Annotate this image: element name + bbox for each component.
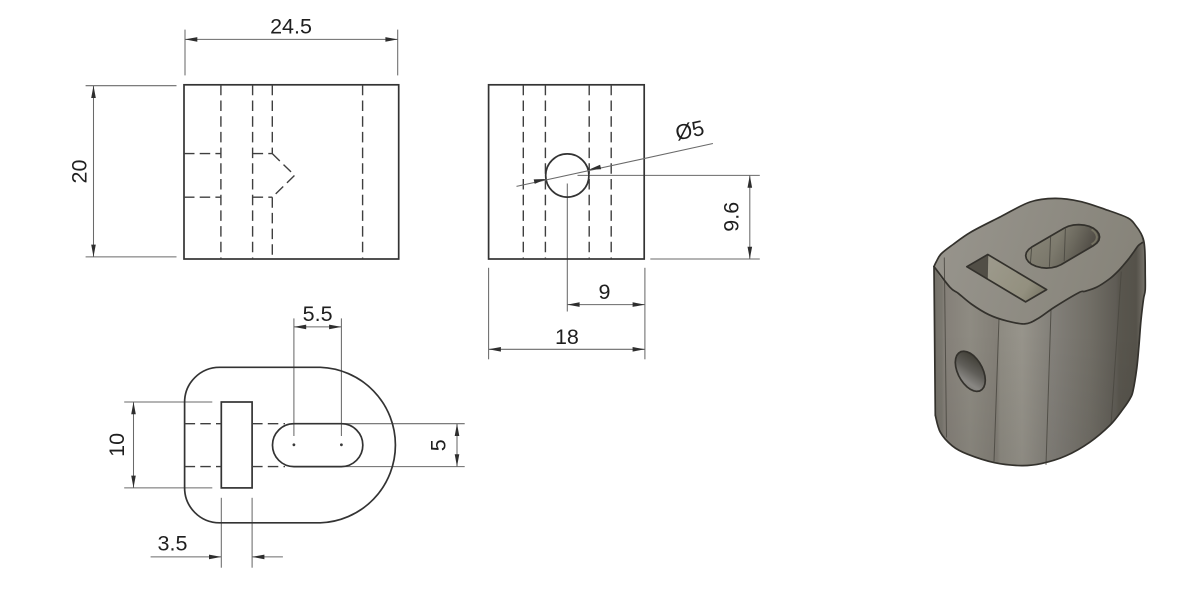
svg-text:5: 5 <box>426 439 450 451</box>
3d slot inner wall seam 3 <box>1064 229 1065 262</box>
top view dim 3.5 dimension line left tail <box>151 556 222 558</box>
side view dim 18 arrow left <box>489 347 501 352</box>
top view dim 3.5 extension line right <box>251 498 253 568</box>
top view hidden hole line top left <box>185 423 222 425</box>
side view hole leader arrow right <box>589 165 602 170</box>
svg-text:9: 9 <box>599 280 611 304</box>
top view dim 5 arrow bottom <box>455 454 460 466</box>
3d recess inner corner edge <box>986 256 989 279</box>
front view hidden hole silhouette top left <box>184 153 221 155</box>
top view dim 5.5 arrow left <box>294 325 306 330</box>
side view dim 18 extension line left <box>488 268 490 360</box>
3d left silhouette edge <box>934 267 935 416</box>
top view hidden hole line bottom mid <box>252 466 285 468</box>
top view recess rectangle 3.5x10 <box>221 402 252 488</box>
side view dim 9.6 extension line bottom <box>650 258 760 260</box>
3d tangent seam hole-face left <box>994 318 999 461</box>
side view dim 9 arrow right <box>633 302 645 307</box>
front view dim 20 dimension line <box>93 86 95 257</box>
side view hole centerline extension <box>566 184 568 312</box>
front view dim 24.5 arrow right <box>385 37 397 42</box>
top view dim 3.5 dimension line right tail <box>252 556 283 558</box>
3d slot vertical shading <box>1026 225 1100 269</box>
front view hidden drill point chevron <box>272 154 294 198</box>
front view outline rectangle <box>184 85 399 259</box>
top view slot obround <box>272 424 362 467</box>
side view dim 18 arrow right <box>633 347 645 352</box>
side view hidden line slot right edge <box>588 85 590 259</box>
top view dim 5.5 extension line right <box>340 318 342 436</box>
3d slot opening edge <box>1026 225 1100 269</box>
3d slot opening fill <box>1026 225 1100 269</box>
side view dim 9.6 extension line top (hole center) <box>578 174 760 176</box>
svg-text:10: 10 <box>105 433 129 457</box>
side view hidden line recess right edge <box>610 85 612 259</box>
top view dim 10 dimension line <box>133 402 135 488</box>
front view dim 20 arrow bottom <box>91 245 96 257</box>
3d side hole rim edge <box>955 351 985 391</box>
3d recess opening edge <box>967 255 1047 302</box>
3d top face fill <box>934 198 1143 324</box>
top view slot arc center dot right <box>340 443 343 446</box>
front view dim 24.5 extension line left <box>184 30 186 76</box>
3d tangent seam hole-face right <box>1046 310 1051 465</box>
svg-text:9.6: 9.6 <box>720 202 744 232</box>
3d recess dark left wall <box>967 255 988 279</box>
svg-text:18: 18 <box>555 325 579 349</box>
3d recess near sliver <box>967 267 1026 302</box>
front view hidden hole silhouette top mid <box>253 153 273 155</box>
top view dim 5 arrow top <box>455 424 460 436</box>
side view dim 9.6 arrow top <box>748 175 753 187</box>
front view hidden hole silhouette bottom mid <box>253 196 273 198</box>
side view dim 18 extension line right <box>644 268 646 360</box>
top view dim 3.5 arrow right <box>252 555 264 560</box>
3d recess lit far wall <box>987 255 1046 302</box>
front view dim 20 extension line top <box>86 85 177 87</box>
svg-text:5.5: 5.5 <box>303 302 333 326</box>
3d tangent seam far-left <box>944 258 946 438</box>
top view hidden hole line top mid <box>252 423 285 425</box>
top view dim 10 arrow top <box>131 402 136 414</box>
3d slot inner wall seam 1 <box>1030 248 1031 263</box>
top view dim 5 dimension line <box>456 424 458 467</box>
front view dim 24.5 dimension line <box>185 38 398 40</box>
3d slot inner wall seam 2 <box>1049 237 1050 267</box>
top view dim 10 extension line top <box>124 401 212 403</box>
top view dim 10 extension line bottom <box>124 487 212 489</box>
3d side hole bore wall fill <box>955 351 985 391</box>
side view hidden line recess left edge <box>522 85 524 259</box>
3d part outer body fill (shaded bands) <box>934 198 1145 465</box>
front view hidden hole silhouette bottom left <box>184 196 221 198</box>
top view outline (rounded block) <box>185 367 396 523</box>
top view dim 10 arrow bottom <box>131 476 136 488</box>
top view dim 3.5 arrow left <box>209 555 221 560</box>
3d body bottom shading overlay <box>934 198 1145 465</box>
side view hidden line slot left edge <box>544 85 546 259</box>
side view dim 9.6 dimension line <box>749 175 751 259</box>
side view dim 18 dimension line <box>489 348 645 350</box>
top view dim 5 extension line top <box>341 423 464 425</box>
side view dim 9 arrow left <box>567 302 579 307</box>
3d top face boundary edge <box>934 243 1143 324</box>
front view hidden line slot-recess right edge <box>252 85 254 259</box>
3d outer silhouette edge <box>934 198 1145 465</box>
top view dim 5.5 dimension line <box>294 326 342 328</box>
svg-text:24.5: 24.5 <box>270 15 312 39</box>
side view hole circle <box>546 154 589 197</box>
front view dim 24.5 extension line right <box>397 30 399 76</box>
top view slot arc center dot left <box>293 443 296 446</box>
front view hidden line slot right end <box>362 85 364 259</box>
top view hidden hole line bottom left <box>185 466 222 468</box>
front view dim 20 arrow top <box>91 86 96 98</box>
top view dim 5.5 extension line left <box>293 318 295 436</box>
top view dim 5.5 arrow right <box>329 325 341 330</box>
front view hidden line slot-recess left edge <box>220 85 222 259</box>
3d recess wall bottom edge <box>987 279 1025 302</box>
top view dim 3.5 extension line left <box>220 498 222 568</box>
top view dim 5 extension line bottom <box>341 466 464 468</box>
side view dim 9 dimension line <box>567 304 645 306</box>
front view hidden line slot left end <box>271 85 273 259</box>
svg-text:20: 20 <box>68 160 92 184</box>
svg-text:3.5: 3.5 <box>158 532 188 556</box>
side view hole leader arrow left <box>534 179 547 184</box>
front view dim 20 extension line bottom <box>86 256 177 258</box>
side view outline rectangle <box>489 85 645 259</box>
side view dim 9.6 arrow bottom <box>748 247 753 259</box>
front view dim 24.5 arrow left <box>185 37 197 42</box>
3d slot right rim highlight <box>1092 229 1097 244</box>
side view hole leader line <box>517 144 713 187</box>
3d tangent seam flat/right-cylinder <box>1111 272 1121 425</box>
